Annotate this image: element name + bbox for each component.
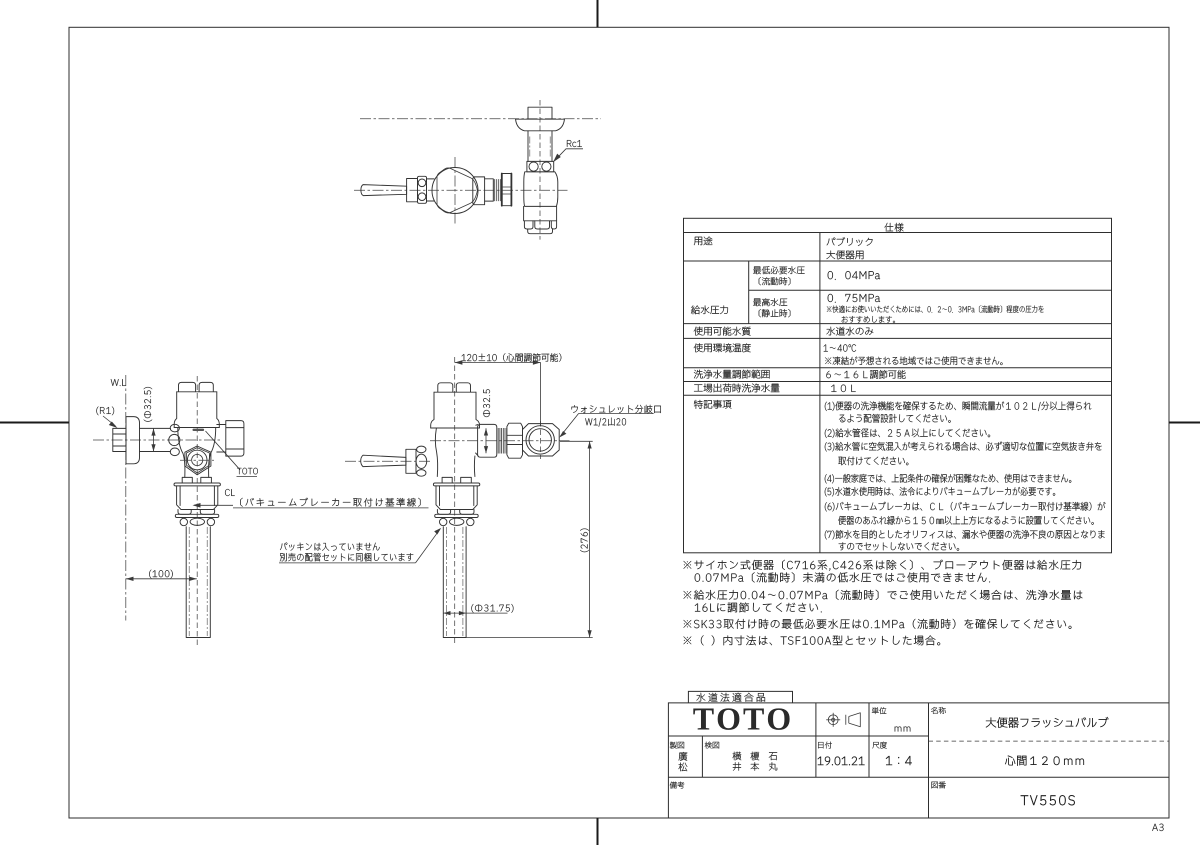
title block: horizontal dividers — [668, 736, 1169, 777]
label washlet port — [572, 405, 661, 413]
value 1-40C — [824, 344, 856, 351]
left view: tailpipe — [186, 527, 210, 638]
spec table row lines — [684, 233, 1112, 396]
left view: packing note leader — [416, 530, 440, 563]
label 日付 — [818, 742, 832, 749]
center view: phi32.5 dimension arrows — [485, 428, 487, 453]
left view: body top cap — [177, 382, 217, 391]
label 製図 — [670, 742, 684, 749]
tokki line3 — [825, 442, 1102, 452]
center view: tailpipe — [443, 527, 466, 638]
center view: chamfered nut — [507, 423, 523, 458]
checker 丸 — [769, 762, 777, 770]
tokki line1 — [825, 401, 1091, 411]
partno TV550S — [1021, 795, 1075, 805]
top view: supply bolt head — [528, 107, 552, 118]
scale 1:4 — [886, 756, 912, 765]
center view: washlet leader — [561, 414, 654, 436]
center view: coupling bell band — [435, 514, 479, 517]
label 図番 — [931, 782, 945, 789]
title block: projection symbol cone — [846, 713, 861, 727]
label 尺度 — [872, 742, 886, 749]
top view: main horizontal centerline — [360, 118, 601, 120]
dim (phi31.75) — [471, 604, 513, 612]
drafter 廣 — [679, 752, 688, 761]
left view: TOTO label underline — [237, 475, 258, 477]
value 0.04MPa — [828, 271, 880, 280]
centering tick top — [597, 0, 599, 27]
sub label 最高水圧 — [753, 298, 787, 306]
stamp 水道法適合品 — [696, 693, 764, 702]
top view: spud nut band — [527, 161, 554, 171]
top view: ball nut silhouette — [437, 168, 477, 213]
spec table column lines — [749, 233, 820, 553]
row label 使用環境温度 — [694, 343, 751, 352]
title block: vertical dividers — [702, 703, 928, 818]
note SK33 — [684, 619, 1072, 629]
checker 石 — [769, 752, 777, 760]
left view: inlet horizontal centerline — [93, 439, 222, 441]
note 快適 — [827, 305, 1044, 312]
note siphon 2 — [695, 572, 990, 582]
center view: VB lower tabs — [437, 510, 474, 515]
top view: vertical centerline through ball — [454, 157, 456, 224]
left view: W.L wall line — [125, 375, 127, 621]
top view: right connector plate — [473, 177, 485, 205]
label phi32.5 center view — [483, 389, 490, 417]
drafter 松 — [679, 763, 688, 772]
label (phi32.5) left view — [144, 387, 152, 421]
label 検図 — [705, 742, 719, 749]
value パブリック — [827, 237, 873, 246]
tokki line4 — [825, 474, 1071, 484]
checker 横 — [733, 752, 742, 760]
left view: VB upper tabs — [182, 477, 211, 483]
note pressure 1 — [684, 590, 1083, 600]
top view: body lower section — [524, 206, 557, 220]
centering tick bottom — [597, 818, 599, 845]
center view: washlet branch outer circle — [526, 426, 554, 454]
top view: connector neck — [485, 179, 494, 201]
center view: coupling balls — [440, 518, 447, 525]
center view: body upper cylinder and flare — [431, 392, 480, 428]
center view: handle base — [406, 449, 416, 473]
center view: body sides to VB — [431, 425, 480, 477]
top view: handle collar — [407, 179, 418, 202]
row label 使用可能水質 — [694, 327, 751, 336]
centering tick right — [1169, 422, 1200, 424]
top view: spud nut ball right — [542, 162, 551, 171]
center view: 120 dimension right extension — [540, 363, 542, 427]
top view: bottom cap — [528, 229, 553, 234]
name 大便器フラッシュバルブ — [986, 717, 1108, 727]
title block: stamp box 水道法適合品 — [688, 691, 792, 703]
left view: (100) dimension line — [126, 578, 197, 580]
tokki line1b — [839, 414, 951, 423]
left view: inlet hex bolt — [113, 428, 126, 451]
sheet A3 — [1152, 824, 1163, 831]
top view: spud nut ball left — [529, 162, 538, 171]
label W.L — [111, 379, 126, 386]
row label 特記事項 — [694, 400, 731, 409]
center view: (phi31.75) text underline — [466, 612, 507, 614]
top view: pivot plate — [427, 179, 435, 201]
left view: coupling bell band — [175, 514, 219, 517]
center view: branch horizontal centerline — [430, 440, 570, 442]
dim 120±10 — [462, 353, 562, 361]
center view: lever centerline — [345, 460, 432, 462]
center view: vacuum breaker body — [436, 486, 477, 510]
tokki line7b — [839, 542, 959, 550]
row label 用途 — [694, 237, 712, 246]
label W1/2 — [585, 418, 626, 427]
top view: connector threads — [494, 179, 500, 201]
title block: dashed separator in name area — [929, 740, 1170, 742]
note pressure 2 — [695, 602, 822, 612]
left view: packing note underline — [279, 562, 416, 564]
name 心間120mm — [1005, 756, 1084, 766]
label CL — [225, 489, 234, 496]
value 10L — [831, 385, 855, 392]
tokki line3b — [838, 456, 908, 465]
left view: vacuum breaker flange — [174, 483, 220, 486]
note 凍結 — [825, 356, 1002, 365]
left view: CL label underline — [233, 507, 429, 509]
center view: 120 dimension line — [455, 362, 541, 364]
top view: handle lever — [361, 185, 407, 196]
top view: wall escutcheon bell — [516, 119, 565, 131]
label packing 2 — [280, 553, 413, 561]
title block: projection symbol circle — [826, 713, 840, 727]
label 備考 — [670, 782, 684, 789]
tokki line6b — [838, 516, 1093, 525]
left view: wall escutcheon — [126, 417, 140, 464]
left view: phi32.5 dimension arrows — [153, 428, 155, 451]
left view: CL center tick — [195, 504, 200, 506]
label VB baseline — [240, 498, 420, 507]
center view: body top cap — [434, 383, 476, 392]
left view: vacuum breaker body — [177, 486, 218, 510]
left view: adjusting hex nut — [185, 446, 211, 475]
top view: coupling nut — [502, 174, 512, 206]
note 快適2 — [842, 316, 895, 323]
center view: vacuum breaker flange — [433, 483, 479, 486]
value 0.75MPa — [828, 294, 880, 303]
spec table outer border — [684, 218, 1112, 553]
checker 榎 — [751, 752, 760, 760]
label 単位 — [872, 707, 886, 714]
value 水道水のみ — [826, 327, 873, 336]
left view: inlet pipe — [140, 428, 171, 451]
unit mm — [895, 727, 910, 732]
left view: VB lower tabs — [178, 510, 215, 515]
title block: TOTO logo — [693, 708, 789, 730]
tokki line7 — [825, 530, 1105, 539]
left view: (R1) leader arrow — [103, 416, 116, 426]
center view: valve vertical centerline — [454, 357, 456, 646]
center view: washlet branch inner circle — [529, 429, 551, 451]
sub label 静止時 — [759, 309, 790, 317]
center view: check nut threads — [498, 428, 507, 454]
top view: horizontal centerline through valve axis — [354, 189, 568, 191]
tokki line5 — [825, 487, 1055, 497]
checker 井 — [733, 762, 741, 770]
top view: bottom tabs — [524, 221, 556, 229]
dim (100) — [149, 570, 172, 578]
note siphon 1 — [684, 560, 1081, 571]
top view: ball housing circle — [432, 168, 478, 214]
left view: coupling balls — [180, 518, 187, 525]
label TOTO leader — [237, 468, 258, 474]
date 19.01.21 — [818, 757, 865, 766]
center view: branch vertical centerline — [539, 421, 541, 459]
left view: valve vertical centerline — [196, 376, 198, 646]
table header 仕様 — [884, 223, 903, 232]
note kakko — [684, 635, 941, 645]
left view: hex nut circles — [187, 450, 207, 470]
center view: (phi31.75) dimension — [443, 612, 466, 614]
left view: body cheeks to flange — [174, 428, 219, 478]
tokki line6 — [825, 502, 1106, 512]
center view: (276) dimension line — [589, 441, 591, 637]
center view: tailpipe thread lines — [445, 527, 447, 636]
top view: pivot housing with balls — [418, 176, 427, 203]
checker 本 — [751, 762, 759, 770]
left view: washlet branch socket — [217, 421, 244, 457]
value 大便器用 — [827, 250, 864, 259]
center view: (276) top extension — [560, 440, 593, 442]
top view: vertical centerline of inlet pipe — [539, 100, 541, 240]
centering tick left — [0, 422, 69, 424]
row label 給水圧力 — [691, 305, 728, 314]
left view: body upper cylinder and flare — [174, 392, 219, 428]
left view: tailpipe thread lines — [188, 527, 190, 636]
center view: pivot rings — [417, 446, 426, 453]
dim (276) — [580, 529, 588, 552]
label 名称 — [931, 707, 946, 714]
top view: inlet pipe walls — [528, 131, 552, 162]
center view: (276) bottom extension — [466, 637, 593, 639]
left view: hex centerline — [180, 459, 214, 461]
left view: TOTO mark on body — [193, 429, 205, 431]
tokki line2 — [825, 428, 990, 437]
label Rc1 — [567, 140, 582, 147]
left view: TOTO leader line — [206, 431, 241, 470]
center view: handle lever — [361, 455, 406, 466]
sub label 最低必要水圧 — [753, 266, 804, 274]
title block: outer lines — [668, 703, 1169, 818]
center view: check nut plate — [478, 424, 497, 457]
center view: VB upper tabs — [442, 477, 471, 483]
label (R1) — [96, 407, 114, 415]
top view: valve body — [524, 172, 558, 207]
top view: Rc1 leader — [556, 149, 584, 160]
row label 工場出荷時洗浄水量 — [694, 384, 779, 393]
sub label 流動時 — [759, 277, 790, 285]
left view: handle pivot rings (end-on) — [170, 424, 179, 432]
row label 洗浄水量調節範囲 — [694, 370, 770, 379]
center view: washlet branch hex — [523, 424, 560, 456]
value 6-16L — [826, 370, 905, 379]
label packing 1 — [280, 543, 379, 551]
top view: inlet pipe thread lines — [529, 137, 531, 159]
left view: CL mark arrow — [199, 504, 233, 506]
